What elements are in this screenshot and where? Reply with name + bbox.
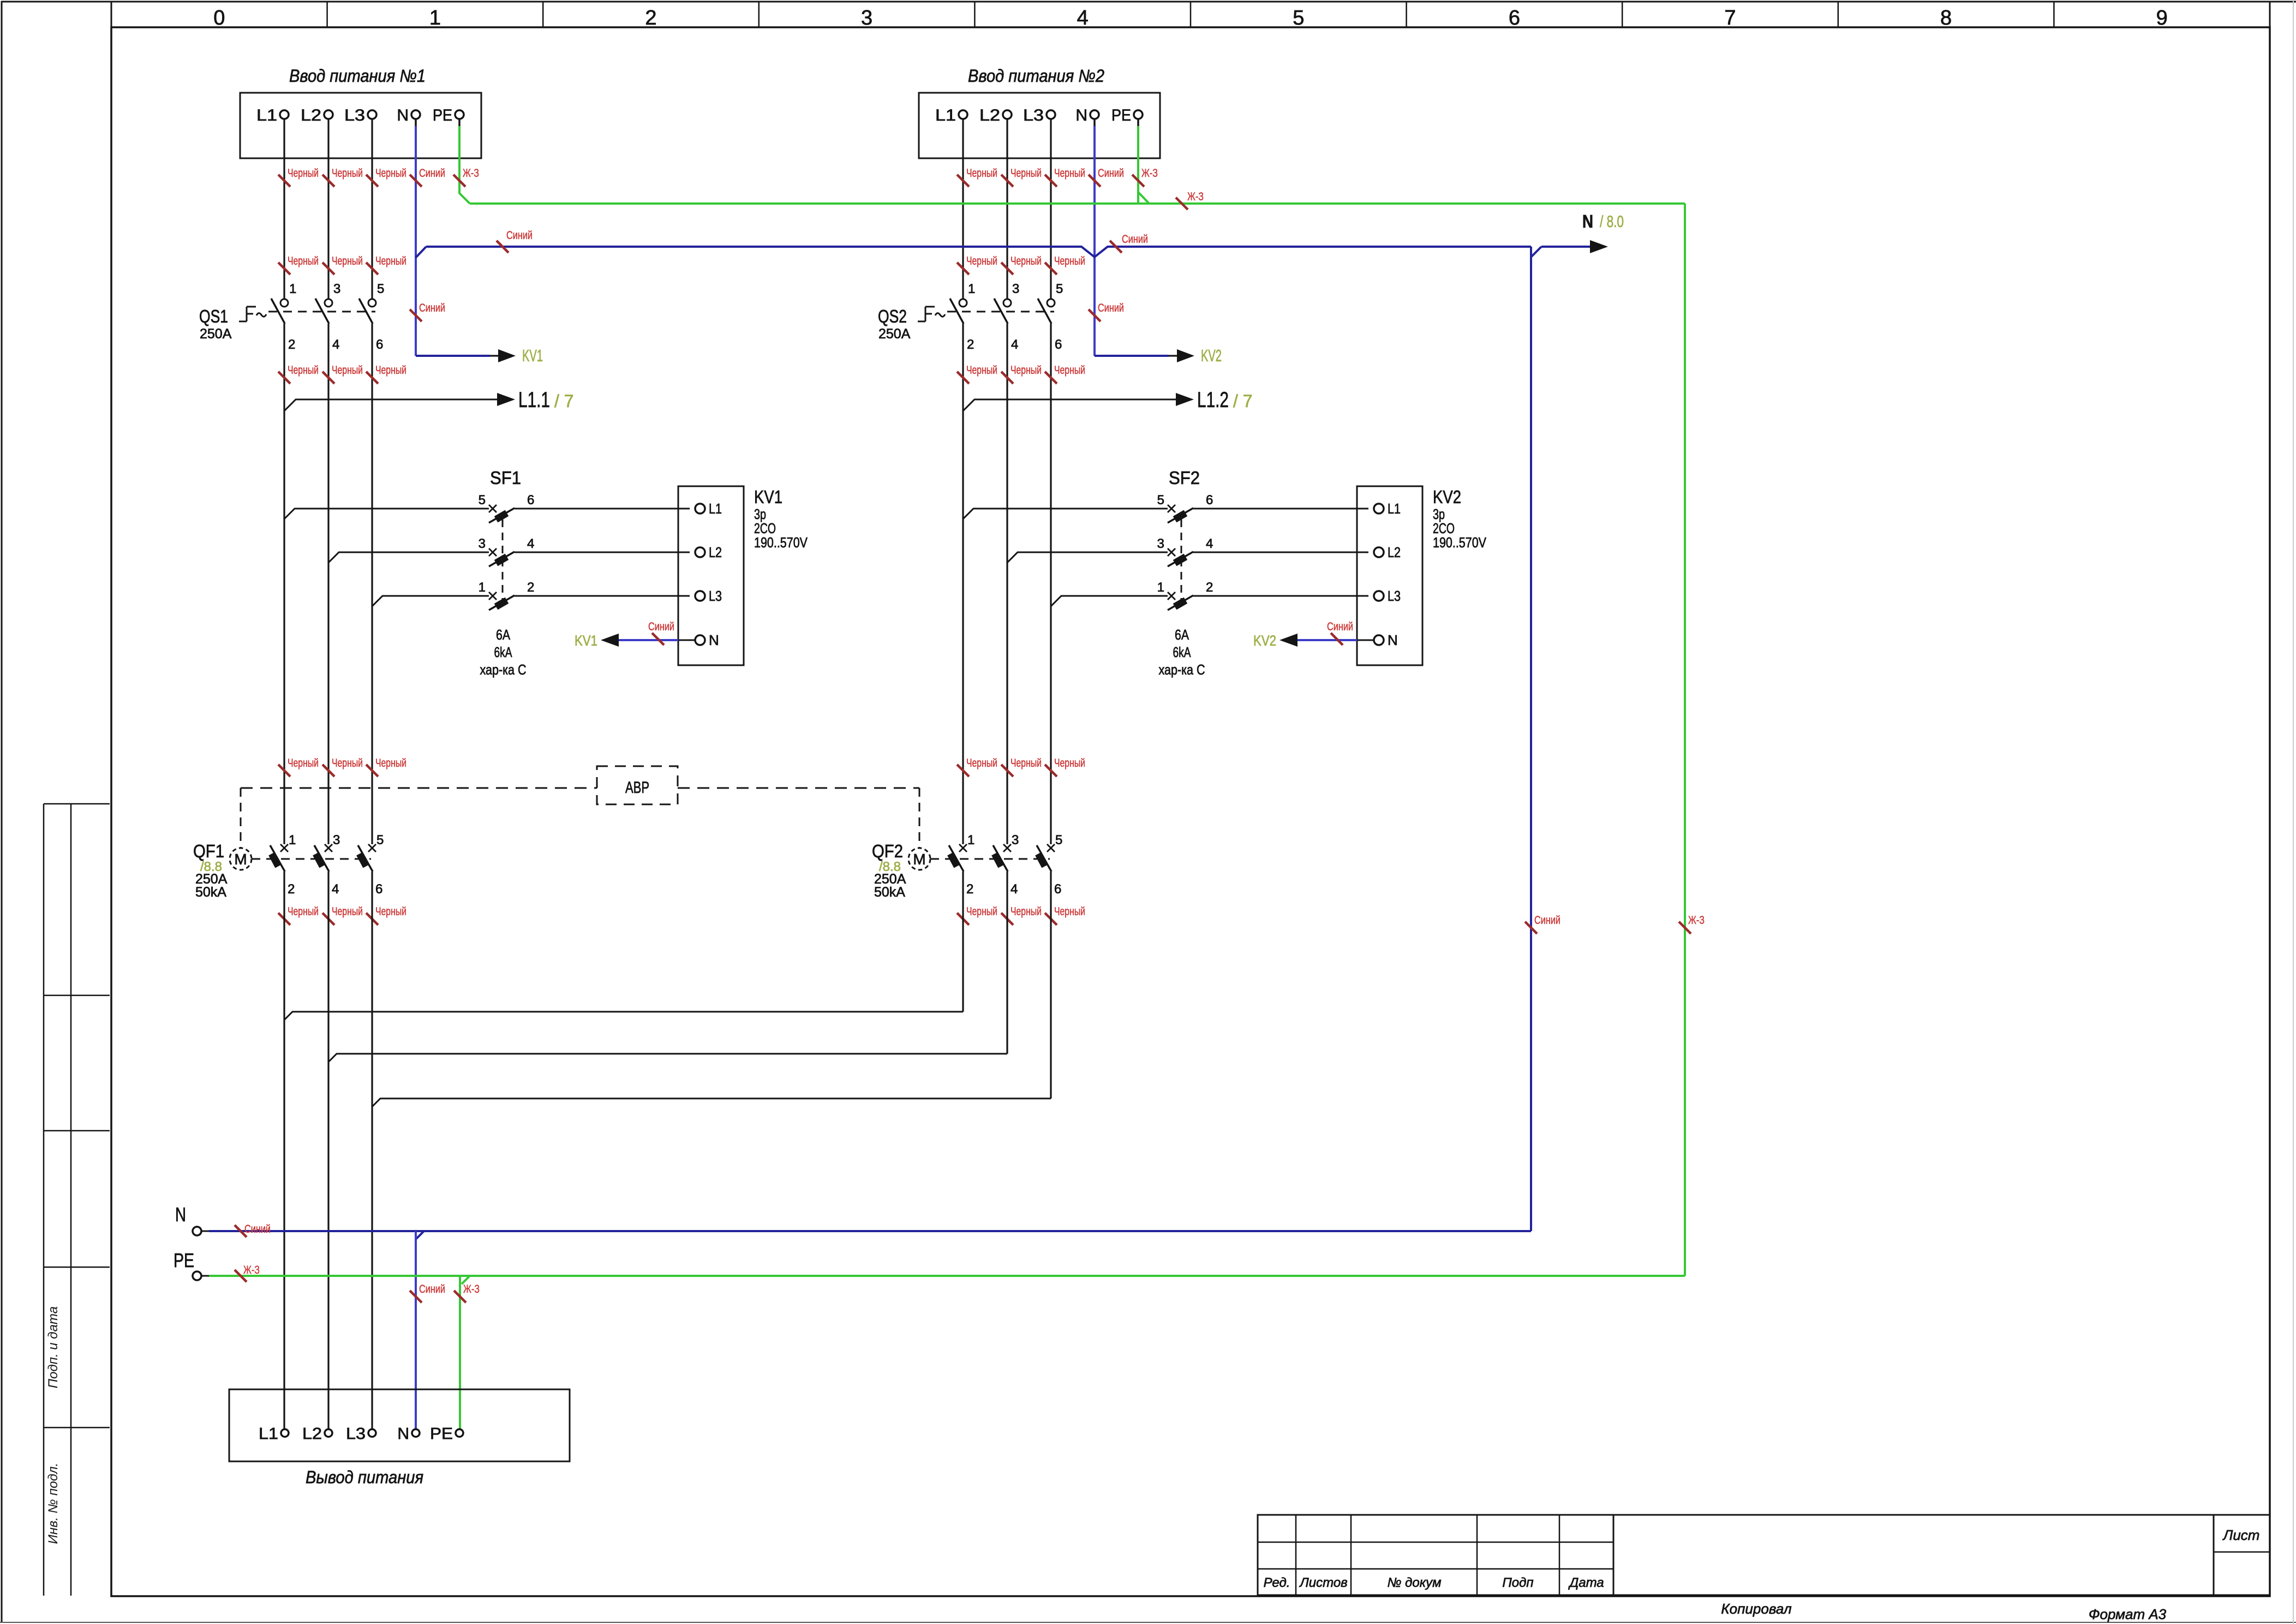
wire L2 QF2 output down <box>1006 871 1008 1054</box>
svg-text:1: 1 <box>1157 580 1164 595</box>
svg-text:Ж-З: Ж-З <box>243 1264 260 1276</box>
svg-text:QS1: QS1 <box>199 306 228 326</box>
svg-text:Ж-З: Ж-З <box>1187 190 1204 203</box>
svg-text:Подп: Подп <box>1502 1575 1533 1590</box>
output terminal L1 <box>281 1429 289 1437</box>
svg-text:4: 4 <box>527 536 534 551</box>
N tap to relay KV1 (blue) with arrow <box>416 355 490 357</box>
wire color label Черный <box>366 262 378 274</box>
svg-text:Ввод питания №1: Ввод питания №1 <box>289 66 426 86</box>
svg-text:N: N <box>709 632 719 648</box>
N bus branch arrow to sheet 8.0 <box>1541 246 1590 248</box>
svg-text:Черный: Черный <box>966 905 997 918</box>
wire color label Черный <box>366 175 378 187</box>
svg-text:KV1: KV1 <box>575 632 597 649</box>
wire L1 input 2 (terminal to QS2) <box>962 119 964 299</box>
wire color label Черный <box>1045 765 1057 777</box>
svg-text:Вывод питания: Вывод питания <box>306 1467 423 1487</box>
relay KV1 (3p 2CO 190..570V) <box>678 486 744 665</box>
terminal X1:L2 <box>324 110 333 119</box>
svg-text:L1: L1 <box>1388 500 1401 517</box>
svg-text:Ж-З: Ж-З <box>1141 167 1158 180</box>
svg-text:2: 2 <box>967 337 974 352</box>
svg-text:KV2: KV2 <box>1433 487 1461 507</box>
QS1 pole 1 (pins 1-2) <box>280 299 288 307</box>
svg-text:Черный: Черный <box>1011 364 1042 377</box>
svg-text:8: 8 <box>1940 7 1952 29</box>
svg-text:190..570V: 190..570V <box>1433 534 1487 551</box>
output terminal L3 <box>368 1429 376 1437</box>
svg-text:3: 3 <box>1012 282 1019 296</box>
wire color label Черный <box>278 175 290 187</box>
svg-text:Черный: Черный <box>1011 167 1042 180</box>
svg-text:5: 5 <box>1055 833 1062 847</box>
automatic transfer control АВР (dashed box) <box>597 766 678 804</box>
svg-text:1: 1 <box>967 833 974 847</box>
QF2 pole (pins 1-2) <box>959 844 967 852</box>
svg-text:хар-ка C: хар-ка C <box>1159 661 1205 678</box>
svg-text:QF1: QF1 <box>193 841 224 861</box>
svg-text:Синий: Синий <box>419 167 445 180</box>
svg-text:250A: 250A <box>200 326 232 342</box>
wire SF1 to KV1 terminal <box>515 552 690 553</box>
QS1 pole 3 (pins 5-6) <box>368 299 376 307</box>
svg-text:3: 3 <box>333 833 340 847</box>
svg-text:L3: L3 <box>344 106 365 124</box>
wire color label Синий <box>652 633 664 645</box>
svg-text:Подп. и дата: Подп. и дата <box>46 1306 61 1388</box>
svg-text:N: N <box>1388 632 1398 648</box>
svg-text:SF1: SF1 <box>490 468 521 488</box>
svg-text:3: 3 <box>479 536 486 551</box>
SF2 pole (pins 3-4) <box>1168 548 1175 556</box>
wire color label Черный <box>278 765 290 777</box>
svg-text:L2: L2 <box>302 1425 322 1443</box>
svg-text:Черный: Черный <box>288 905 319 918</box>
svg-text:Черный: Черный <box>1054 167 1085 180</box>
KV1 N return wire (blue) with arrow to KV1 <box>678 640 695 641</box>
svg-text:Черный: Черный <box>332 364 363 377</box>
svg-text:Синий: Синий <box>1534 914 1560 927</box>
wire tap L2 to SF2 pole <box>1007 552 1168 563</box>
svg-text:5: 5 <box>1157 493 1164 507</box>
svg-text:L1.2: L1.2 <box>1197 388 1229 412</box>
wire L2 input 1 (terminal to QS1) <box>327 119 329 299</box>
svg-text:2: 2 <box>645 7 656 29</box>
svg-text:6: 6 <box>1206 493 1213 507</box>
wire color label Черный <box>957 765 969 777</box>
wire color label Синий <box>497 241 509 253</box>
wire color label Черный <box>957 913 969 925</box>
svg-text:Черный: Черный <box>375 167 406 180</box>
wire color label Синий <box>1525 922 1537 934</box>
wire color label Черный <box>1001 175 1013 187</box>
svg-text:L3: L3 <box>1023 106 1044 124</box>
terminal X2:L2 <box>1003 110 1012 119</box>
svg-text:Синий: Синий <box>419 302 445 314</box>
svg-text:Черный: Черный <box>966 167 997 180</box>
wire L1 QF1 output to output block <box>283 871 285 1429</box>
KV1 terminal L1 <box>695 504 705 514</box>
N tap to relay KV2 (blue) with arrow <box>1095 355 1169 357</box>
PE bus bottom run (green) <box>209 1275 1685 1277</box>
N bus junction to output N <box>416 1231 424 1239</box>
wire color label Черный <box>1045 372 1057 384</box>
svg-text:Черный: Черный <box>1054 255 1085 267</box>
svg-text:6: 6 <box>1509 7 1520 29</box>
wire L1 QF2 output down <box>962 871 964 1012</box>
SF2 linkage (dashed) <box>1181 520 1182 608</box>
svg-text:QS2: QS2 <box>878 306 907 326</box>
svg-text:4: 4 <box>332 337 339 352</box>
wire color label Синий <box>235 1225 247 1237</box>
svg-text:4: 4 <box>1011 882 1018 897</box>
tap wire L1.1 with arrow <box>284 399 498 411</box>
wire color label Черный <box>322 765 334 777</box>
QF2 control link to АВР (dashed) <box>919 788 920 848</box>
wire color label Ж-З <box>453 175 465 187</box>
svg-text:Черный: Черный <box>332 905 363 918</box>
wire color label Черный <box>1045 262 1057 274</box>
wire color label Черный <box>1001 913 1013 925</box>
output terminal L2 <box>325 1429 332 1437</box>
АВР control line to QF2 (dashed) <box>678 787 919 789</box>
output terminal block (Вывод питания) <box>229 1389 570 1461</box>
wire SF2 to KV2 terminal <box>1193 595 1368 597</box>
wire L1 below QS1 <box>283 324 285 844</box>
wire color label Черный <box>366 913 378 925</box>
svg-text:N: N <box>1582 211 1593 231</box>
wire color label Черный <box>366 372 378 384</box>
KV2 terminal N <box>1374 635 1384 645</box>
svg-text:Ж-З: Ж-З <box>463 1283 480 1295</box>
svg-text:Инв. № подл.: Инв. № подл. <box>46 1463 61 1544</box>
wire tap L2 to SF1 pole <box>328 552 489 563</box>
SF2 pole (pins 1-2) <box>1168 592 1175 600</box>
terminal X2:L1 <box>959 110 967 119</box>
svg-text:3: 3 <box>1157 536 1164 551</box>
QS1 linkage (dashed) <box>268 311 375 313</box>
wire color label Черный <box>322 913 334 925</box>
QF1 pole (pins 5-6) <box>368 844 376 852</box>
svg-text:Черный: Черный <box>966 255 997 267</box>
svg-text:1: 1 <box>429 7 441 29</box>
svg-text:Черный: Черный <box>332 167 363 180</box>
svg-text:2: 2 <box>966 882 973 897</box>
svg-text:Черный: Черный <box>1011 757 1042 769</box>
wire L3 QF1 output to output block <box>371 871 373 1429</box>
svg-text:Ж-З: Ж-З <box>1688 914 1705 927</box>
svg-text:50kA: 50kA <box>874 885 905 900</box>
PE bus top run (green) <box>470 202 1685 205</box>
svg-text:Черный: Черный <box>332 757 363 769</box>
wire SF1 to KV1 terminal <box>515 595 690 597</box>
wire color label Черный <box>1001 372 1013 384</box>
wire color label Черный <box>278 262 290 274</box>
wire tap L1 to SF2 pole <box>963 509 1168 519</box>
terminal X2:N <box>1090 110 1099 119</box>
svg-text:Синий: Синий <box>1122 233 1148 246</box>
wire L2 below QS2 <box>1006 324 1008 844</box>
tie wire L1 from QF2 to QF1 side <box>284 1012 963 1020</box>
wire color label Ж-З <box>454 1291 466 1303</box>
KV1 terminal N <box>695 635 705 645</box>
svg-text:2: 2 <box>288 337 295 352</box>
svg-text:L2: L2 <box>301 106 321 124</box>
SF1 pole (pins 5-6) <box>489 505 497 512</box>
svg-text:3: 3 <box>861 7 872 29</box>
wire L2 below QS1 <box>327 324 329 844</box>
svg-text:KV2: KV2 <box>1253 632 1276 649</box>
QF1 pole (pins 3-4) <box>325 844 332 852</box>
wire color label Синий <box>410 1291 422 1303</box>
svg-text:Синий: Синий <box>1327 620 1353 633</box>
svg-text:L3: L3 <box>1388 588 1401 604</box>
svg-text:5: 5 <box>1293 7 1304 29</box>
svg-text:5: 5 <box>479 493 486 507</box>
svg-text:Формат А3: Формат А3 <box>2089 1606 2167 1622</box>
KV1 terminal L2 <box>695 547 705 557</box>
svg-text:L1: L1 <box>256 106 277 124</box>
wire L3 input 2 (terminal to QS2) <box>1050 119 1051 299</box>
wire color label Черный <box>1045 913 1057 925</box>
svg-text:6kA: 6kA <box>1173 644 1191 660</box>
wire L1 input 1 (terminal to QS1) <box>283 119 285 299</box>
svg-text:хар-ка C: хар-ка C <box>480 661 527 678</box>
wire tap L3 to SF1 pole <box>372 596 489 606</box>
svg-text:L1: L1 <box>259 1425 278 1443</box>
QS2 linkage (dashed) <box>947 311 1054 313</box>
svg-text:3: 3 <box>1012 833 1019 847</box>
terminal X1:L1 <box>280 110 289 119</box>
svg-text:Черный: Черный <box>1054 364 1085 377</box>
svg-text:KV1: KV1 <box>754 487 782 507</box>
wire color label Черный <box>1001 765 1013 777</box>
svg-text:Черный: Черный <box>1011 905 1042 918</box>
svg-text:0: 0 <box>213 7 225 29</box>
wire color label Синий <box>1089 175 1101 187</box>
svg-text:Листов: Листов <box>1299 1575 1347 1590</box>
svg-text:/ 7: / 7 <box>1233 391 1253 411</box>
output terminal PE <box>456 1429 463 1437</box>
АВР control line to QF1 (dashed) <box>241 787 597 789</box>
svg-text:M: M <box>913 851 925 868</box>
svg-text:N: N <box>175 1203 186 1226</box>
svg-text:Черный: Черный <box>1054 905 1085 918</box>
svg-text:L1: L1 <box>709 500 722 517</box>
svg-text:Ввод питания №2: Ввод питания №2 <box>968 66 1104 86</box>
svg-text:Синий: Синий <box>648 620 674 633</box>
svg-text:Черный: Черный <box>288 757 319 769</box>
QS2 manual drive symbol <box>918 321 925 323</box>
wire color label Черный <box>957 175 969 187</box>
wire color label Черный <box>957 372 969 384</box>
svg-text:4: 4 <box>1206 536 1213 551</box>
svg-text:Синий: Синий <box>1098 167 1124 180</box>
QS2 pole 2 (pins 3-4) <box>1003 299 1011 307</box>
junction PE input 2 on PE bus <box>1139 193 1149 204</box>
wire L3 below QS2 <box>1050 324 1051 844</box>
QF1 control link to АВР (dashed) <box>240 788 242 848</box>
terminal X2:PE <box>1134 110 1143 119</box>
svg-text:Синий: Синий <box>506 229 533 242</box>
N bus bottom run (blue) <box>209 1230 1531 1232</box>
svg-text:M: M <box>234 851 247 868</box>
svg-text:4: 4 <box>1011 337 1018 352</box>
svg-text:5: 5 <box>377 282 384 296</box>
KV1 terminal L3 <box>695 591 705 601</box>
svg-text:Черный: Черный <box>288 167 319 180</box>
QS1 manual drive symbol <box>239 321 247 323</box>
svg-text:Синий: Синий <box>419 1283 445 1295</box>
wire color label Ж-З <box>1176 198 1188 210</box>
svg-text:Черный: Черный <box>375 905 406 918</box>
terminal X2:L3 <box>1047 110 1055 119</box>
svg-text:Синий: Синий <box>1098 302 1124 314</box>
svg-text:L2: L2 <box>979 106 1000 124</box>
svg-text:Лист: Лист <box>2222 1527 2260 1543</box>
KV2 N return wire (blue) with arrow to KV2 <box>1357 640 1374 641</box>
SF2 pole (pins 5-6) <box>1168 505 1175 512</box>
SF1 pole (pins 1-2) <box>489 592 497 600</box>
wire N input 2 (blue) <box>1093 119 1096 127</box>
svg-text:№ докум: № докум <box>1387 1575 1441 1590</box>
wire color label Ж-З <box>1679 922 1691 934</box>
wire L2 QF1 output to output block <box>327 871 329 1429</box>
svg-text:L3: L3 <box>709 588 722 604</box>
N bus right vertical (blue) <box>1530 247 1532 1231</box>
svg-text:6: 6 <box>376 337 383 352</box>
svg-text:Черный: Черный <box>375 364 406 377</box>
svg-text:N: N <box>397 106 409 124</box>
PE bus junction to output PE <box>462 1276 470 1284</box>
svg-text:PE: PE <box>430 1425 453 1443</box>
wire color label Черный <box>366 765 378 777</box>
wire color label Ж-З <box>235 1270 247 1282</box>
svg-text:4: 4 <box>1077 7 1089 29</box>
svg-text:Черный: Черный <box>288 255 319 267</box>
wire tap L1 to SF1 pole <box>284 509 489 519</box>
svg-text:Черный: Черный <box>966 757 997 769</box>
wire color label Синий <box>1089 309 1101 321</box>
wire PE to output block (green) <box>459 1276 461 1429</box>
svg-text:АВР: АВР <box>625 779 649 797</box>
KV2 terminal L1 <box>1374 504 1384 514</box>
wire color label Черный <box>278 372 290 384</box>
N bus top run (blue) <box>426 247 1531 257</box>
svg-text:6: 6 <box>1055 337 1062 352</box>
svg-text:Черный: Черный <box>1011 255 1042 267</box>
svg-text:7: 7 <box>1724 7 1736 29</box>
QF2 pole (pins 5-6) <box>1047 844 1055 852</box>
wire color label Черный <box>1045 175 1057 187</box>
N bus junction at input 1 <box>416 247 426 258</box>
svg-text:190..570V: 190..570V <box>754 534 808 551</box>
svg-text:Дата: Дата <box>1568 1575 1604 1590</box>
SF1 linkage (dashed) <box>502 520 504 608</box>
svg-text:Черный: Черный <box>288 364 319 377</box>
svg-text:6kA: 6kA <box>494 644 512 660</box>
svg-text:6: 6 <box>1054 882 1061 897</box>
svg-text:4: 4 <box>332 882 339 897</box>
svg-text:6A: 6A <box>496 626 511 643</box>
svg-text:Черный: Черный <box>966 364 997 377</box>
svg-text:N: N <box>1075 106 1087 124</box>
QS2 pole 3 (pins 5-6) <box>1047 299 1055 307</box>
svg-text:2: 2 <box>1206 580 1213 595</box>
svg-text:Копировал: Копировал <box>1721 1601 1792 1617</box>
terminal X1:L3 <box>368 110 376 119</box>
relay KV2 (3p 2CO 190..570V) <box>1357 486 1422 665</box>
SF1 pole (pins 3-4) <box>489 548 497 556</box>
wire color label Черный <box>278 913 290 925</box>
svg-text:3: 3 <box>333 282 340 296</box>
wire color label Черный <box>322 262 334 274</box>
wire color label Ж-З <box>1132 175 1144 187</box>
svg-text:2: 2 <box>527 580 534 595</box>
terminal X1:PE <box>455 110 464 119</box>
wire SF2 to KV2 terminal <box>1193 552 1368 553</box>
wire color label Черный <box>322 372 334 384</box>
svg-text:Ж-З: Ж-З <box>463 167 479 180</box>
svg-text:Черный: Черный <box>375 255 406 267</box>
QS1 pole 2 (pins 3-4) <box>325 299 332 307</box>
svg-text:5: 5 <box>376 833 384 847</box>
svg-text:L1: L1 <box>935 106 956 124</box>
svg-text:SF2: SF2 <box>1169 468 1200 488</box>
svg-text:PE: PE <box>433 106 452 124</box>
svg-text:/ 8.0: / 8.0 <box>1600 213 1624 231</box>
svg-text:PE: PE <box>1111 106 1131 124</box>
wire tap L3 to SF2 pole <box>1051 596 1168 606</box>
wire color label Черный <box>322 175 334 187</box>
wire PE input 1 (green) down to PE bus <box>458 119 461 127</box>
QF2 linkage (dashed) <box>930 858 1050 860</box>
svg-text:PE: PE <box>174 1249 194 1271</box>
KV2 terminal L2 <box>1374 547 1384 557</box>
wire L3 input 1 (terminal to QS1) <box>371 119 373 299</box>
svg-text:250A: 250A <box>878 326 911 342</box>
wire SF1 to KV1 terminal <box>515 508 690 510</box>
QF1 pole (pins 1-2) <box>280 844 288 852</box>
svg-text:L3: L3 <box>346 1425 366 1443</box>
wire color label Черный <box>957 262 969 274</box>
wire color label Черный <box>1001 262 1013 274</box>
svg-text:KV2: KV2 <box>1201 346 1222 365</box>
svg-text:6A: 6A <box>1175 626 1189 643</box>
svg-text:1: 1 <box>479 580 486 595</box>
svg-text:1: 1 <box>289 833 296 847</box>
wire SF2 to KV2 terminal <box>1193 508 1368 510</box>
svg-text:Ред.: Ред. <box>1264 1575 1290 1590</box>
tie wire L2 from QF2 to QF1 side <box>328 1054 1007 1062</box>
QF2 motor drive M <box>908 848 930 870</box>
QF2 pole (pins 3-4) <box>1003 844 1011 852</box>
svg-text:2: 2 <box>288 882 295 897</box>
output terminal N <box>412 1429 420 1437</box>
svg-text:L2: L2 <box>1388 544 1401 560</box>
svg-text:KV1: KV1 <box>522 346 543 365</box>
QF1 motor drive M <box>230 848 252 870</box>
svg-text:6: 6 <box>527 493 534 507</box>
svg-text:9: 9 <box>2156 7 2168 29</box>
wire L1 below QS2 <box>962 324 964 844</box>
svg-text:Синий: Синий <box>244 1223 271 1235</box>
svg-text:/ 7: / 7 <box>554 391 574 411</box>
wire color label Синий <box>1110 241 1122 253</box>
wire color label Синий <box>1331 633 1343 645</box>
svg-text:Черный: Черный <box>1054 757 1085 769</box>
